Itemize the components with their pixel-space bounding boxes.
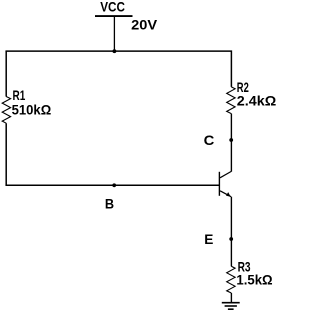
svg-text:1.5kΩ: 1.5kΩ (236, 272, 272, 288)
svg-text:E: E (204, 231, 213, 247)
svg-text:R1: R1 (13, 87, 26, 103)
svg-text:20V: 20V (131, 17, 158, 33)
svg-text:C: C (204, 132, 215, 148)
svg-text:2.4kΩ: 2.4kΩ (237, 92, 276, 108)
svg-text:510kΩ: 510kΩ (12, 102, 52, 118)
svg-text:B: B (105, 195, 114, 211)
svg-text:VCC: VCC (100, 0, 125, 15)
